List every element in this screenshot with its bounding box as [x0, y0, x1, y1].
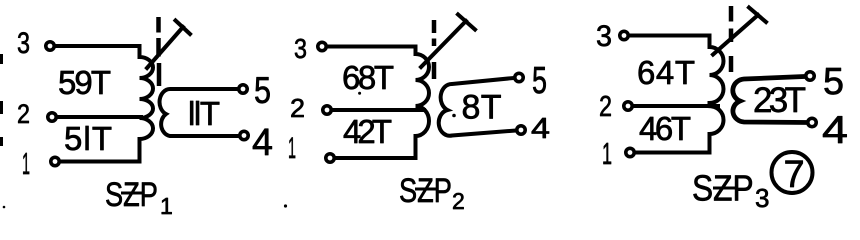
svg-text:4: 4: [822, 109, 848, 152]
svg-text:7: 7: [784, 154, 805, 196]
svg-text:23T: 23T: [753, 81, 806, 120]
svg-text:64T: 64T: [637, 54, 695, 91]
svg-text:llT: llT: [188, 95, 220, 132]
svg-text:2: 2: [290, 93, 305, 123]
svg-text:1: 1: [602, 136, 612, 171]
svg-text:2: 2: [452, 188, 465, 214]
svg-text:2: 2: [599, 91, 612, 123]
svg-text:1: 1: [22, 146, 30, 181]
svg-text:5: 5: [254, 70, 271, 111]
svg-text:3: 3: [17, 27, 30, 60]
svg-text:4: 4: [252, 122, 273, 164]
svg-text:3: 3: [755, 183, 769, 213]
svg-text:8T: 8T: [462, 89, 502, 127]
svg-text:5lT: 5lT: [64, 120, 112, 157]
svg-text:3: 3: [596, 20, 612, 53]
svg-text:68T: 68T: [342, 59, 394, 96]
svg-text:5: 5: [532, 60, 547, 102]
svg-text:42T: 42T: [343, 113, 392, 150]
svg-text:3: 3: [294, 33, 307, 64]
svg-text:46T: 46T: [639, 110, 691, 147]
svg-text:5: 5: [823, 61, 844, 103]
svg-text:2: 2: [17, 99, 30, 129]
svg-text:1: 1: [160, 193, 173, 216]
svg-text:4: 4: [531, 113, 550, 145]
svg-text:1: 1: [288, 132, 296, 165]
svg-text:59T: 59T: [58, 64, 111, 101]
